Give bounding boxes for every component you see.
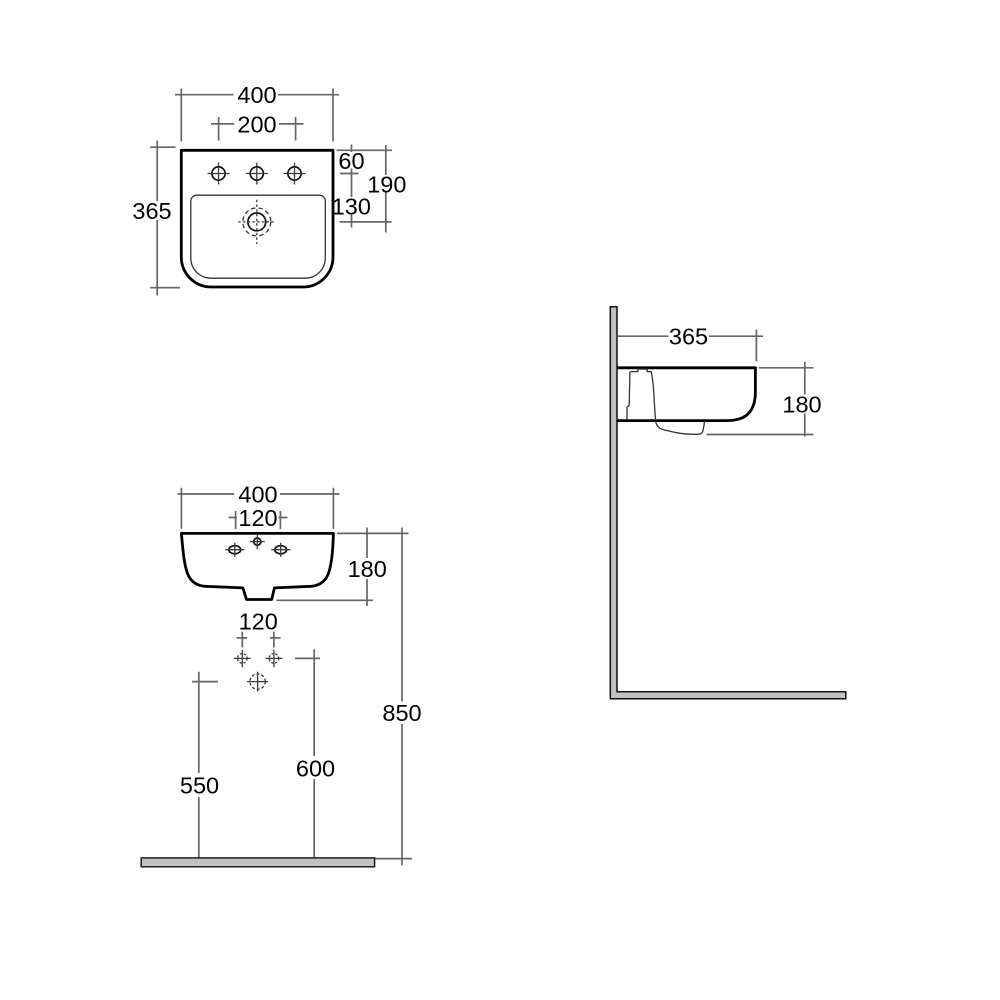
dimension 60 / 130 / 190 (plan right side) bbox=[332, 145, 407, 233]
wall and floor (side view) bbox=[610, 307, 846, 699]
faucet hole right (front) bbox=[271, 543, 290, 557]
dimension 365 (side depth) bbox=[618, 324, 763, 362]
dimension 180 (front height) bbox=[277, 528, 409, 607]
dimension 180 (side height) bbox=[707, 362, 822, 437]
svg-text:400: 400 bbox=[238, 482, 277, 508]
bolt hole right (front) bbox=[265, 650, 282, 668]
dimension 400 (plan width) bbox=[175, 82, 339, 141]
waste outlet hole (front) bbox=[247, 672, 268, 692]
drain trap (side) bbox=[656, 421, 705, 435]
svg-text:60: 60 bbox=[338, 148, 364, 174]
floor (front view) bbox=[141, 858, 374, 867]
dimension 120 (bolt hole spacing) bbox=[237, 608, 281, 647]
svg-text:200: 200 bbox=[237, 111, 276, 137]
svg-text:180: 180 bbox=[348, 556, 387, 582]
svg-text:190: 190 bbox=[367, 172, 406, 198]
dimension 200 (faucet hole spacing) bbox=[211, 111, 304, 140]
faucet hole middle (plan) bbox=[246, 163, 268, 185]
svg-text:600: 600 bbox=[296, 756, 335, 782]
svg-text:365: 365 bbox=[132, 198, 171, 224]
tap / overflow silhouette (side) bbox=[627, 369, 656, 420]
svg-text:120: 120 bbox=[239, 608, 278, 634]
basin outline (front) bbox=[181, 533, 333, 599]
svg-text:120: 120 bbox=[238, 505, 277, 531]
dimension 120 (front hole spacing) bbox=[229, 505, 288, 531]
basin profile (side) bbox=[617, 368, 755, 421]
faucet hole left (front) bbox=[225, 543, 244, 557]
basin inner bowl rim (plan) bbox=[191, 195, 325, 278]
dimension 365 (plan depth) bbox=[132, 141, 180, 296]
svg-text:180: 180 bbox=[782, 392, 821, 418]
drain (plan) bbox=[238, 200, 275, 244]
basin outer outline (plan) bbox=[181, 150, 333, 287]
dimension 850 (rim height) bbox=[375, 528, 422, 866]
svg-text:365: 365 bbox=[669, 324, 708, 350]
faucet hole middle (front) bbox=[250, 534, 265, 549]
svg-text:130: 130 bbox=[332, 193, 371, 219]
faucet hole left (plan) bbox=[208, 163, 230, 185]
dimension 550 (outlet height) bbox=[180, 672, 219, 866]
svg-text:400: 400 bbox=[237, 82, 276, 108]
dimension 600 (bolt height) bbox=[295, 649, 335, 865]
svg-text:550: 550 bbox=[180, 773, 219, 799]
bolt hole left (front) bbox=[234, 650, 251, 668]
faucet hole right (plan) bbox=[284, 163, 306, 185]
svg-text:850: 850 bbox=[382, 700, 421, 726]
dimension 400 (front width) bbox=[178, 482, 340, 529]
